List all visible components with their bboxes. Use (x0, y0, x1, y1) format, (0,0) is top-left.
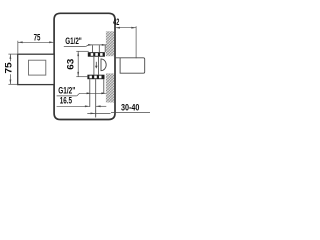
dimension 75 horizontal (top) (18, 41, 54, 54)
handle knob (side view, protruding from wall) (115, 58, 145, 73)
bottom threaded connection (nipple) (87, 75, 104, 80)
leader line from bottom G1/2" label to wall (77, 92, 106, 96)
wall section hatch, upper band (106, 31, 114, 56)
leader line from top G1/2" label to wall (86, 44, 106, 46)
underline of top G1/2" label (64, 45, 86, 47)
svg-text:75: 75 (34, 32, 41, 42)
top threaded connection (nipple) (88, 52, 105, 57)
dimension 42 (wall face to handle end) (115, 27, 136, 29)
lower leader arrow to supply pipe axis (87, 110, 110, 117)
svg-text:30-40: 30-40 (121, 103, 139, 113)
housing outline (side view rounded rectangle) (54, 13, 115, 119)
svg-text:16.5: 16.5 (60, 96, 72, 106)
svg-text:42: 42 (113, 17, 119, 27)
dimension 16.5 (pipe stub offset) (57, 105, 107, 107)
valve cap / spindle dome toward wall (101, 59, 106, 71)
dimension 63 vertical (connection spacing) (76, 51, 88, 76)
underline of bottom G1/2" label (57, 95, 77, 97)
front view knob (inner square) (29, 60, 46, 75)
dimension 30-40 baseline (wall depth range) (111, 111, 150, 113)
wall section hatch, lower band (106, 73, 114, 102)
dimension 75 vertical (left) (8, 54, 17, 84)
svg-text:63: 63 (66, 59, 76, 70)
flow direction arrow inside valve (95, 62, 98, 69)
svg-text:G1/2": G1/2" (58, 86, 75, 96)
bottom outlet pipe stubs (90, 79, 104, 117)
valve body pipe (between connections) (94, 57, 99, 75)
top inlet pipe stubs (93, 45, 106, 52)
svg-text:75: 75 (4, 62, 14, 73)
extension line of dimension 42 down to handle (135, 26, 137, 58)
svg-text:G1/2": G1/2" (65, 36, 82, 46)
front view plate (outer square) (18, 54, 54, 84)
